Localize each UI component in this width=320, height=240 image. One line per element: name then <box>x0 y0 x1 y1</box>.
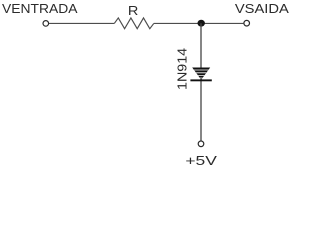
diode D1 cathode bar <box>190 79 211 81</box>
terminal +5V (open circle) <box>198 141 204 147</box>
terminal VSAIDA (open circle) <box>244 20 250 26</box>
terminal VENTRADA (open circle) <box>43 21 49 27</box>
wire: VENTRADA terminal to resistor R <box>49 22 114 24</box>
junction dot (node joining R, D1, VSAIDA) <box>198 20 205 27</box>
svg-text:R: R <box>128 3 138 18</box>
wire: resistor R to junction node <box>154 22 244 24</box>
resistor R (zigzag body) <box>114 18 154 29</box>
diode D1 triangle (anode, hatched fill) <box>190 68 211 80</box>
svg-text:+5V: +5V <box>185 153 217 168</box>
wire: junction node down to +5V terminal <box>200 23 202 141</box>
svg-text:VSAIDA: VSAIDA <box>235 1 289 16</box>
svg-text:1N914: 1N914 <box>175 48 190 90</box>
svg-text:VENTRADA: VENTRADA <box>2 1 78 16</box>
